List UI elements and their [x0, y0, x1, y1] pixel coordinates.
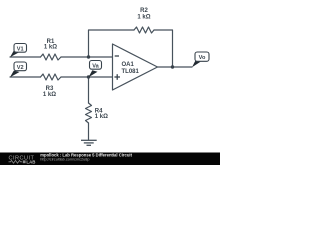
resistor R4 value label — [95, 108, 108, 120]
node flag V1 — [10, 44, 27, 58]
svg-text:TL081: TL081 — [122, 69, 140, 75]
svg-text:Va: Va — [92, 63, 99, 69]
footer bar — [0, 153, 220, 166]
resistor R1 — [41, 54, 62, 60]
svg-text:V2: V2 — [17, 65, 24, 71]
op-amp U1 labels — [122, 62, 140, 75]
node junction dot output — [171, 65, 174, 68]
svg-text:OA1: OA1 — [122, 62, 135, 68]
node flag Va — [89, 61, 102, 78]
op-amp plus sign — [114, 74, 120, 80]
node flag V2 — [10, 62, 27, 77]
wire R4 top lead — [88, 77, 90, 103]
svg-text:http://circuitlab.com/cmc2u8p: http://circuitlab.com/cmc2u8p — [40, 158, 89, 162]
wire feedback left vertical and top to R2 — [89, 30, 135, 57]
svg-text:1 kΩ: 1 kΩ — [95, 114, 108, 120]
wire R3 to op-amp non-inverting input — [61, 76, 113, 78]
svg-text:LAB: LAB — [26, 159, 35, 164]
svg-text:R2: R2 — [140, 8, 148, 14]
wire R4 to ground — [88, 123, 90, 140]
resistor R1 value label — [44, 39, 57, 51]
wire op-amp output to Vo — [158, 66, 193, 68]
wire V1 to R1 — [10, 56, 41, 58]
svg-text:V1: V1 — [17, 46, 24, 52]
svg-text:Vo: Vo — [199, 55, 206, 61]
op-amp U1 triangle — [113, 44, 158, 90]
svg-text:1 kΩ: 1 kΩ — [137, 14, 150, 20]
wire R2 to output node — [154, 30, 173, 67]
resistor R4 — [86, 103, 92, 123]
svg-text:1 kΩ: 1 kΩ — [43, 92, 56, 98]
node flag Vo — [192, 52, 209, 67]
footer CircuitLab logo — [9, 155, 36, 164]
ground — [81, 140, 97, 145]
svg-text:1 kΩ: 1 kΩ — [44, 44, 57, 50]
resistor R2 — [134, 27, 154, 33]
resistor R3 — [41, 74, 62, 80]
op-amp minus sign — [115, 55, 119, 57]
node junction dot Va — [87, 75, 90, 78]
wire R1 to op-amp inverting input — [61, 56, 113, 58]
node junction dot A (inverting input / feedback) — [87, 55, 90, 58]
wire V2 to R3 — [10, 76, 41, 78]
resistor R3 value label — [43, 86, 56, 98]
resistor R2 value label — [137, 8, 150, 20]
